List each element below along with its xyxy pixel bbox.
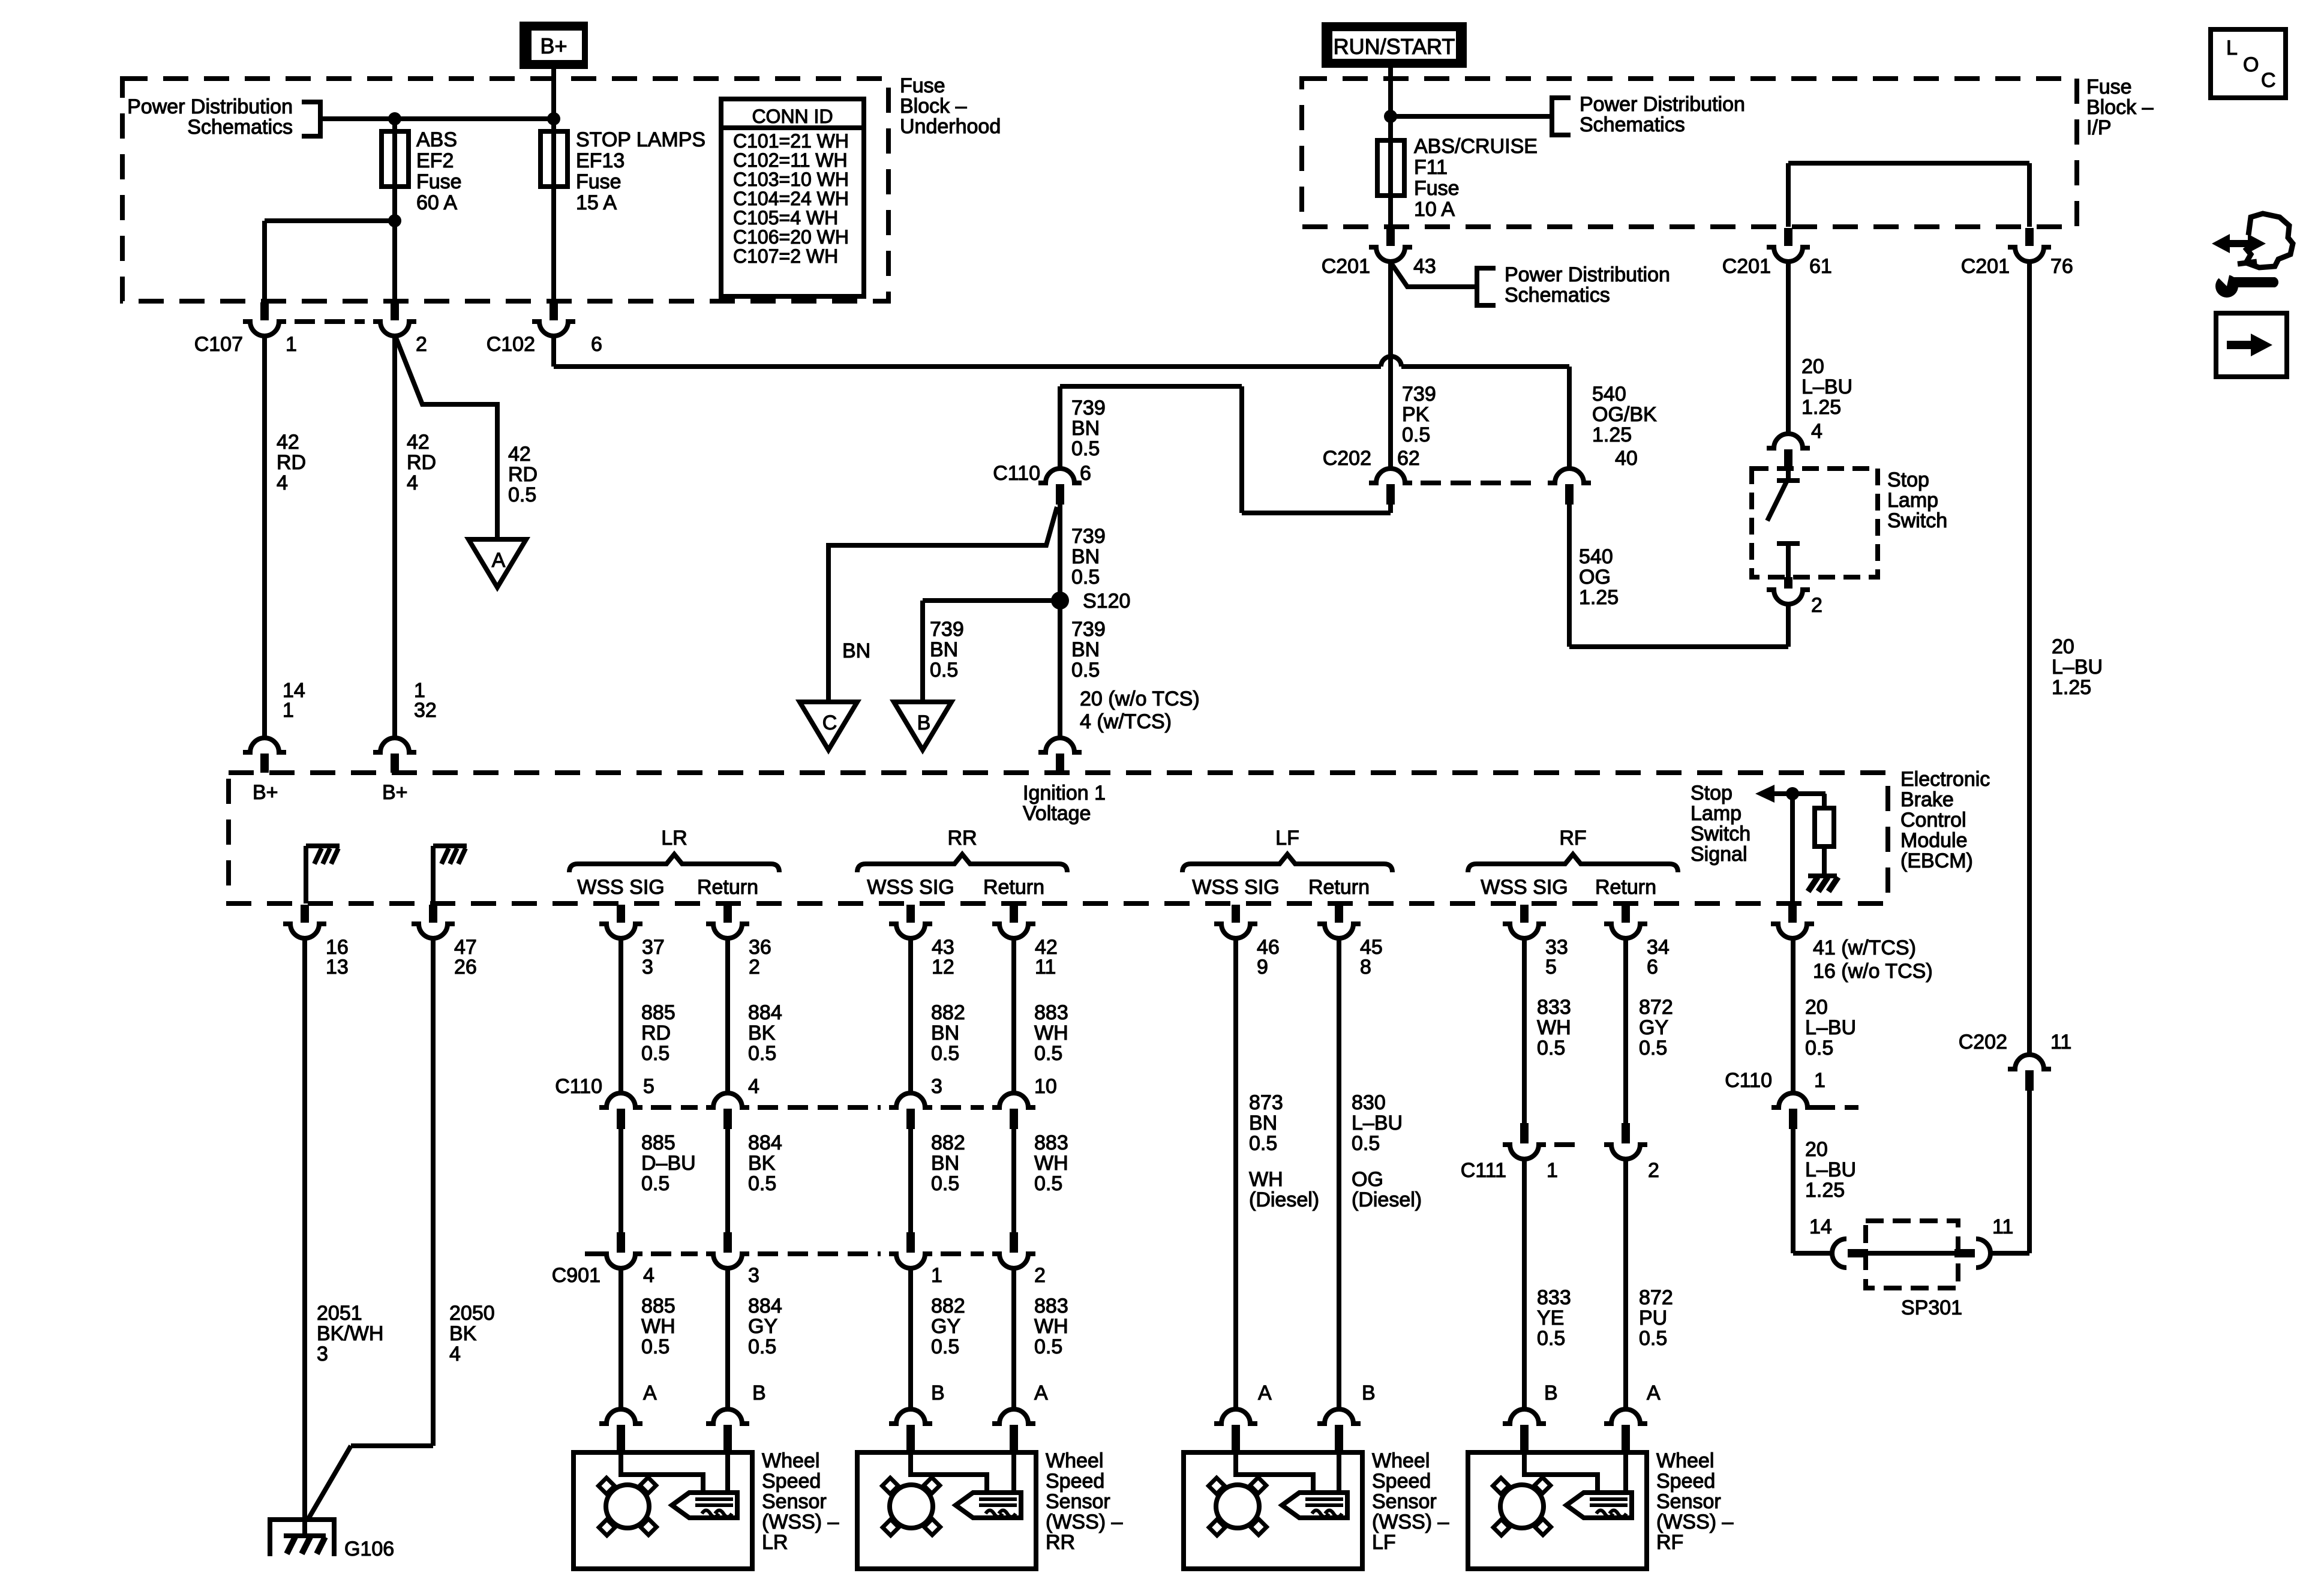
connector sensor LF pin A	[1214, 1409, 1257, 1424]
wire LR WSS SIG	[618, 938, 623, 1093]
EBCM dashed box	[229, 773, 1888, 903]
svg-text:O: O	[2243, 53, 2259, 76]
svg-text:882: 882	[931, 1001, 965, 1024]
svg-text:B: B	[931, 1382, 945, 1404]
svg-text:B: B	[1362, 1382, 1376, 1404]
wire RF WSS SIG	[1522, 938, 1527, 1125]
svg-text:G106: G106	[344, 1538, 394, 1560]
svg-text:1.25: 1.25	[1579, 586, 1619, 609]
svg-text:C110: C110	[1725, 1069, 1772, 1092]
wire diagonal to bracket	[1392, 264, 1477, 287]
connector EBCM bottom pin 34	[1622, 905, 1630, 923]
svg-text:WH: WH	[1034, 1315, 1068, 1338]
SP301 right connector	[1954, 1249, 1975, 1257]
wire LR WSS mid	[618, 1129, 623, 1232]
svg-text:1: 1	[1547, 1159, 1558, 1182]
svg-text:20: 20	[1805, 1138, 1828, 1161]
brace LR	[569, 854, 779, 872]
connector C110 pin 3	[889, 1093, 932, 1107]
wrench icon	[2215, 275, 2238, 298]
svg-text:2050: 2050	[449, 1302, 495, 1325]
svg-text:884: 884	[748, 1131, 782, 1154]
svg-text:32: 32	[414, 699, 437, 722]
svg-text:B+: B+	[253, 781, 278, 804]
svg-text:41 (w/TCS): 41 (w/TCS)	[1813, 936, 1916, 959]
svg-text:RF: RF	[1656, 1531, 1683, 1554]
svg-text:Control: Control	[1900, 809, 1966, 831]
svg-text:1: 1	[286, 333, 297, 356]
wire 739 PK return path	[1388, 505, 1393, 513]
svg-text:EF2: EF2	[416, 149, 454, 172]
svg-text:BN: BN	[931, 1022, 959, 1044]
stop lamp switch signal arrow	[1755, 785, 1774, 803]
svg-text:540: 540	[1579, 545, 1613, 568]
wheel speed sensor box RF	[1468, 1452, 1647, 1569]
wire C110-6 to S120	[1058, 505, 1062, 740]
svg-text:C102: C102	[487, 333, 535, 356]
dashed link C901 row	[585, 1251, 600, 1256]
svg-text:C202: C202	[1323, 447, 1371, 470]
svg-text:4: 4	[407, 472, 418, 494]
svg-text:L–BU: L–BU	[1352, 1112, 1403, 1134]
svg-text:Schematics: Schematics	[1505, 284, 1610, 307]
wire RR Return	[1011, 938, 1016, 1093]
svg-text:Fuse: Fuse	[2086, 76, 2132, 98]
svg-text:C103=10 WH: C103=10 WH	[733, 169, 849, 190]
svg-text:Switch: Switch	[1691, 822, 1750, 845]
wire C201-61 to stop lamp switch	[1786, 262, 1791, 434]
stop lamp switch dashed box	[1752, 469, 1878, 577]
connector EBCM bottom pin 33	[1520, 905, 1529, 923]
connector EBCM bottom pin 36	[723, 905, 732, 923]
svg-text:Signal: Signal	[1691, 843, 1747, 866]
svg-text:B: B	[1544, 1382, 1558, 1404]
svg-text:SP301: SP301	[1901, 1296, 1962, 1319]
svg-text:PU: PU	[1639, 1307, 1667, 1329]
svg-text:Underhood: Underhood	[900, 115, 1001, 138]
wire 42 RD 4 (C107-1 to EBCM B+)	[262, 336, 267, 738]
svg-text:Sensor: Sensor	[1372, 1490, 1437, 1513]
svg-text:0.5: 0.5	[1639, 1037, 1667, 1059]
wheel speed sensor box LR	[574, 1452, 752, 1569]
svg-text:Module: Module	[1900, 829, 1968, 852]
svg-text:1.25: 1.25	[1805, 1179, 1845, 1202]
B+ power symbol box	[520, 22, 588, 69]
svg-text:CONN ID: CONN ID	[752, 106, 833, 127]
svg-text:9: 9	[1257, 956, 1268, 978]
bracket callout (C201-43)	[1477, 268, 1496, 305]
svg-text:883: 883	[1034, 1001, 1068, 1024]
svg-text:RD: RD	[407, 451, 436, 474]
svg-text:C102=11 WH: C102=11 WH	[733, 149, 848, 171]
svg-text:2: 2	[1811, 594, 1822, 617]
svg-text:WSS SIG: WSS SIG	[867, 876, 954, 899]
svg-text:C201: C201	[1961, 255, 2010, 278]
dashed link C110 row LR-RR	[651, 1105, 698, 1110]
svg-text:Lamp: Lamp	[1887, 489, 1938, 512]
svg-text:10 A: 10 A	[1414, 198, 1455, 221]
svg-text:14: 14	[1809, 1215, 1832, 1238]
svg-text:4 (w/TCS): 4 (w/TCS)	[1080, 710, 1172, 733]
svg-text:(WSS) –: (WSS) –	[762, 1511, 839, 1533]
connector EBCM bottom pin 42	[1010, 905, 1018, 923]
EBCM resistor ground	[1808, 873, 1837, 878]
svg-text:61: 61	[1809, 255, 1832, 278]
svg-text:C: C	[2261, 69, 2276, 92]
svg-text:Wheel: Wheel	[1372, 1449, 1430, 1472]
svg-text:RF: RF	[1559, 827, 1586, 849]
svg-text:26: 26	[454, 956, 477, 978]
svg-text:1.25: 1.25	[1592, 424, 1632, 446]
svg-text:OG/BK: OG/BK	[1592, 403, 1657, 426]
connector EBCM pin 14 (B+)	[243, 738, 286, 752]
splice S120 dot	[1051, 592, 1069, 610]
wheel speed sensor box LF	[1184, 1452, 1362, 1569]
svg-text:C106=20 WH: C106=20 WH	[733, 226, 849, 248]
svg-text:1: 1	[1814, 1069, 1825, 1092]
svg-text:11: 11	[1035, 956, 1056, 978]
svg-text:L–BU: L–BU	[2052, 656, 2103, 679]
svg-text:Power Distribution: Power Distribution	[1505, 263, 1670, 286]
svg-text:885: 885	[641, 1131, 675, 1154]
svg-text:883: 883	[1034, 1131, 1068, 1154]
connector sensor RR pin B	[889, 1409, 932, 1424]
svg-text:B: B	[752, 1382, 766, 1404]
svg-text:Return: Return	[1308, 876, 1370, 899]
connector sensor LR pin A	[599, 1409, 642, 1424]
svg-text:GY: GY	[1639, 1016, 1668, 1039]
switch blade	[1767, 482, 1786, 521]
svg-text:42: 42	[277, 431, 299, 454]
svg-text:885: 885	[641, 1001, 675, 1024]
svg-text:L–BU: L–BU	[1805, 1158, 1856, 1181]
svg-text:0.5: 0.5	[1537, 1037, 1565, 1059]
svg-text:0.5: 0.5	[1071, 659, 1100, 682]
svg-text:Electronic: Electronic	[1900, 768, 1990, 791]
svg-text:EF13: EF13	[576, 149, 624, 172]
connector C110 pin 6	[1038, 469, 1082, 483]
LOC icon box	[2211, 29, 2286, 98]
connector C107 pin 1	[260, 302, 269, 320]
svg-text:Return: Return	[697, 876, 758, 899]
node dot at ABS fuse top	[388, 112, 401, 125]
RUN/START power symbol box	[1322, 22, 1467, 68]
ground G106	[268, 1517, 337, 1522]
svg-text:GY: GY	[748, 1315, 777, 1338]
svg-text:Block –: Block –	[900, 95, 967, 118]
svg-text:Fuse: Fuse	[1414, 177, 1460, 200]
svg-text:20: 20	[1805, 996, 1828, 1019]
svg-text:A: A	[1647, 1382, 1661, 1404]
svg-text:Wheel: Wheel	[1656, 1449, 1714, 1472]
wheel speed sensor box RR	[857, 1452, 1036, 1569]
switch contact top	[1777, 478, 1800, 483]
svg-text:C104=24 WH: C104=24 WH	[733, 188, 849, 209]
svg-text:(WSS) –: (WSS) –	[1372, 1511, 1449, 1533]
svg-text:Block –: Block –	[2086, 96, 2154, 119]
svg-text:0.5: 0.5	[641, 1172, 669, 1195]
svg-text:13: 13	[326, 956, 349, 978]
connector EBCM bottom pin 16	[301, 905, 309, 923]
svg-text:Fuse: Fuse	[576, 170, 621, 193]
svg-text:872: 872	[1639, 1286, 1673, 1309]
svg-text:BK/WH: BK/WH	[317, 1322, 383, 1345]
svg-text:BN: BN	[931, 1152, 959, 1175]
wire RR Return lower	[1011, 1268, 1016, 1409]
connector C110 pin 5	[599, 1093, 642, 1107]
svg-text:20: 20	[2052, 635, 2074, 658]
svg-text:739: 739	[1071, 525, 1106, 548]
connector switch pin 4	[1767, 434, 1810, 448]
connector C202 pin 62	[1369, 469, 1412, 483]
connector C111 pin 1	[1520, 1123, 1529, 1143]
svg-text:Switch: Switch	[1887, 509, 1947, 532]
svg-text:739: 739	[1071, 397, 1106, 419]
svg-text:4: 4	[449, 1343, 461, 1365]
svg-text:Lamp: Lamp	[1691, 802, 1742, 825]
wheel speed sensor LR internals	[621, 1452, 703, 1492]
wire ABS fuse to C107-2	[392, 223, 397, 302]
svg-text:BN: BN	[1249, 1112, 1277, 1134]
connector dashed link C107-1 to C107-2	[295, 319, 365, 324]
switch contact bottom	[1777, 541, 1800, 546]
svg-text:882: 882	[931, 1295, 965, 1317]
connector C110 pin 1 (right)	[1771, 1093, 1815, 1107]
svg-text:OG: OG	[1579, 566, 1611, 589]
svg-text:C107: C107	[194, 333, 243, 356]
svg-text:ABS/CRUISE: ABS/CRUISE	[1414, 135, 1538, 158]
wire RR WSS lower	[908, 1268, 913, 1409]
wire RF Return	[1623, 938, 1628, 1125]
svg-text:4: 4	[643, 1264, 654, 1287]
svg-text:B+: B+	[540, 34, 567, 58]
svg-text:ABS: ABS	[416, 128, 457, 151]
connector EBCM pin 41/16	[1788, 905, 1797, 923]
svg-text:Ignition 1: Ignition 1	[1023, 782, 1106, 804]
svg-text:16 (w/o TCS): 16 (w/o TCS)	[1813, 960, 1933, 983]
svg-text:B: B	[917, 712, 931, 734]
wire RF WSS lower	[1522, 1159, 1527, 1409]
svg-text:1.25: 1.25	[1801, 396, 1841, 419]
wire LR Return	[725, 938, 730, 1093]
connector EBCM bottom pin 47	[429, 905, 437, 923]
node dot below ABS fuse	[388, 214, 401, 227]
svg-text:(Diesel): (Diesel)	[1352, 1188, 1422, 1211]
svg-text:Stop: Stop	[1691, 782, 1733, 804]
svg-text:833: 833	[1537, 996, 1571, 1019]
connector C111 pin 2	[1622, 1123, 1630, 1143]
svg-text:RUN/START: RUN/START	[1334, 34, 1455, 59]
svg-text:(WSS) –: (WSS) –	[1046, 1511, 1123, 1533]
svg-text:3: 3	[642, 956, 653, 978]
wire RR Return mid	[1011, 1129, 1016, 1232]
svg-text:C901: C901	[552, 1264, 600, 1287]
svg-text:15 A: 15 A	[576, 191, 617, 214]
connector C201 pin 61	[1784, 228, 1792, 246]
svg-text:62: 62	[1397, 447, 1420, 470]
svg-text:C110: C110	[993, 462, 1040, 485]
fuse ABS EF2 60A	[392, 119, 397, 223]
SP301 left connector	[1832, 1239, 1846, 1268]
svg-text:8: 8	[1360, 956, 1371, 978]
connector C202 pin 40	[1548, 469, 1591, 483]
svg-text:L: L	[2226, 37, 2238, 59]
svg-text:43: 43	[1413, 255, 1436, 278]
svg-text:BN: BN	[1071, 638, 1100, 661]
svg-text:C201: C201	[1322, 255, 1370, 278]
brace RF	[1468, 854, 1678, 872]
svg-text:0.5: 0.5	[748, 1335, 776, 1358]
svg-text:A: A	[643, 1382, 657, 1404]
svg-text:2051: 2051	[317, 1302, 362, 1325]
svg-text:Sensor: Sensor	[762, 1490, 827, 1513]
svg-text:42: 42	[407, 431, 430, 454]
svg-text:3: 3	[748, 1264, 759, 1287]
svg-text:C107=2 WH: C107=2 WH	[733, 245, 838, 267]
brace LF	[1182, 854, 1392, 872]
wire stop lamp signal to pin 41	[1790, 794, 1795, 905]
svg-text:0.5: 0.5	[508, 484, 536, 506]
wire LF Return	[1337, 938, 1341, 1409]
svg-text:LR: LR	[661, 827, 687, 849]
svg-text:(EBCM): (EBCM)	[1900, 849, 1973, 872]
svg-text:BK: BK	[748, 1152, 776, 1175]
dashed link C111 row	[1554, 1142, 1584, 1147]
svg-text:40: 40	[1615, 447, 1638, 470]
svg-text:RR: RR	[1046, 1531, 1075, 1554]
svg-text:YE: YE	[1537, 1307, 1564, 1329]
wheel speed sensor LF internals	[1236, 1452, 1313, 1492]
svg-text:739: 739	[1071, 618, 1106, 641]
wire C202-11 to SP301	[2027, 1091, 2032, 1253]
svg-text:0.5: 0.5	[931, 1172, 959, 1195]
svg-text:C201: C201	[1722, 255, 1771, 278]
svg-text:885: 885	[641, 1295, 675, 1317]
connector C201 pin 76	[2025, 228, 2034, 246]
wire RR WSS SIG	[908, 938, 913, 1093]
svg-text:5: 5	[1545, 956, 1557, 978]
svg-text:2: 2	[749, 956, 760, 978]
svg-text:0.5: 0.5	[1352, 1132, 1380, 1155]
svg-text:BN: BN	[1071, 545, 1100, 568]
connector C107 pin 2	[391, 302, 399, 320]
svg-text:0.5: 0.5	[931, 1042, 959, 1065]
wire branch diagonal to C	[828, 507, 1057, 702]
svg-text:830: 830	[1352, 1091, 1386, 1114]
svg-text:Fuse: Fuse	[900, 74, 945, 97]
svg-text:6: 6	[1647, 956, 1658, 978]
svg-text:0.5: 0.5	[1805, 1037, 1833, 1059]
svg-text:3: 3	[931, 1075, 942, 1098]
svg-text:C111: C111	[1461, 1159, 1506, 1182]
svg-text:F11: F11	[1414, 156, 1448, 179]
svg-text:739: 739	[1402, 383, 1436, 406]
svg-text:0.5: 0.5	[1034, 1042, 1062, 1065]
svg-text:WSS SIG: WSS SIG	[1192, 876, 1279, 899]
svg-text:1: 1	[931, 1264, 942, 1287]
svg-text:0.5: 0.5	[931, 1335, 959, 1358]
wheel speed sensor RF internals	[1524, 1452, 1598, 1492]
triangle B	[894, 702, 951, 750]
svg-text:739: 739	[930, 618, 964, 641]
svg-text:4: 4	[1811, 420, 1822, 443]
svg-text:PK: PK	[1402, 403, 1430, 426]
wire C110-1 upper	[1791, 938, 1795, 1093]
svg-text:0.5: 0.5	[641, 1335, 669, 1358]
svg-text:GY: GY	[931, 1315, 960, 1338]
svg-text:872: 872	[1639, 996, 1673, 1019]
svg-text:BN: BN	[842, 640, 870, 662]
svg-text:Sensor: Sensor	[1046, 1490, 1110, 1513]
brace RR	[857, 854, 1067, 872]
svg-text:C202: C202	[1959, 1031, 2007, 1053]
svg-text:Power Distribution: Power Distribution	[1580, 93, 1745, 116]
svg-text:WH: WH	[1034, 1022, 1068, 1044]
svg-text:11: 11	[1992, 1215, 2013, 1238]
connector C110 pin 10	[992, 1093, 1035, 1107]
SP301 dashed box	[1866, 1221, 1958, 1288]
connector C901 pin 1	[906, 1232, 915, 1253]
svg-text:WSS SIG: WSS SIG	[577, 876, 664, 899]
wire to bracket (right)	[1391, 114, 1552, 119]
svg-text:20: 20	[1801, 355, 1824, 378]
svg-text:0.5: 0.5	[1034, 1335, 1062, 1358]
svg-text:LF: LF	[1275, 827, 1299, 849]
svg-text:Return: Return	[1595, 876, 1656, 899]
svg-text:Schematics: Schematics	[187, 116, 293, 139]
arrow box icon	[2216, 313, 2287, 377]
svg-text:Speed: Speed	[1656, 1470, 1715, 1493]
EBCM internal resistor	[1822, 794, 1827, 808]
wire 2050 BK (pin47 to G106)	[431, 938, 436, 1446]
svg-text:Speed: Speed	[762, 1470, 821, 1493]
connector C102 pin 6	[550, 302, 558, 320]
svg-text:BK: BK	[748, 1022, 776, 1044]
svg-text:0.5: 0.5	[1249, 1132, 1277, 1155]
svg-text:WSS SIG: WSS SIG	[1481, 876, 1568, 899]
svg-text:(WSS) –: (WSS) –	[1656, 1511, 1734, 1533]
node dot RUN/START	[1384, 110, 1397, 123]
svg-text:60 A: 60 A	[416, 191, 457, 214]
wheel speed sensor RR internals	[911, 1452, 987, 1492]
wire RR WSS mid	[908, 1129, 913, 1232]
connector EBCM bottom pin 46	[1232, 905, 1240, 923]
node dot at B+ column	[547, 112, 560, 125]
svg-text:S120: S120	[1083, 590, 1130, 613]
connector C201 pin 43	[1386, 228, 1395, 246]
connector C901 pin 2	[1010, 1232, 1018, 1253]
svg-text:L–BU: L–BU	[1801, 376, 1852, 398]
svg-text:0.5: 0.5	[1071, 437, 1100, 460]
svg-text:BN: BN	[930, 638, 958, 661]
bracket callout (I/P)	[1552, 98, 1571, 135]
svg-text:LR: LR	[762, 1531, 788, 1554]
wire 739 PK (C201-43 to C202-62)	[1388, 262, 1393, 469]
wire C110-1 to SP301	[1791, 1129, 1795, 1253]
svg-text:C110: C110	[555, 1075, 602, 1098]
fuse block - I/P (dashed box)	[1302, 79, 2077, 227]
svg-text:C105=4 WH: C105=4 WH	[733, 207, 838, 229]
svg-text:12: 12	[932, 956, 954, 978]
connector EBCM pin 1 (B+)	[373, 738, 416, 752]
svg-text:LF: LF	[1372, 1531, 1396, 1554]
svg-text:1.25: 1.25	[2052, 676, 2091, 699]
svg-text:(Diesel): (Diesel)	[1249, 1188, 1319, 1211]
connector EBCM bottom pin 43	[906, 905, 915, 923]
svg-text:OG: OG	[1352, 1168, 1383, 1191]
svg-text:RD: RD	[508, 463, 538, 486]
svg-text:Speed: Speed	[1046, 1470, 1104, 1493]
